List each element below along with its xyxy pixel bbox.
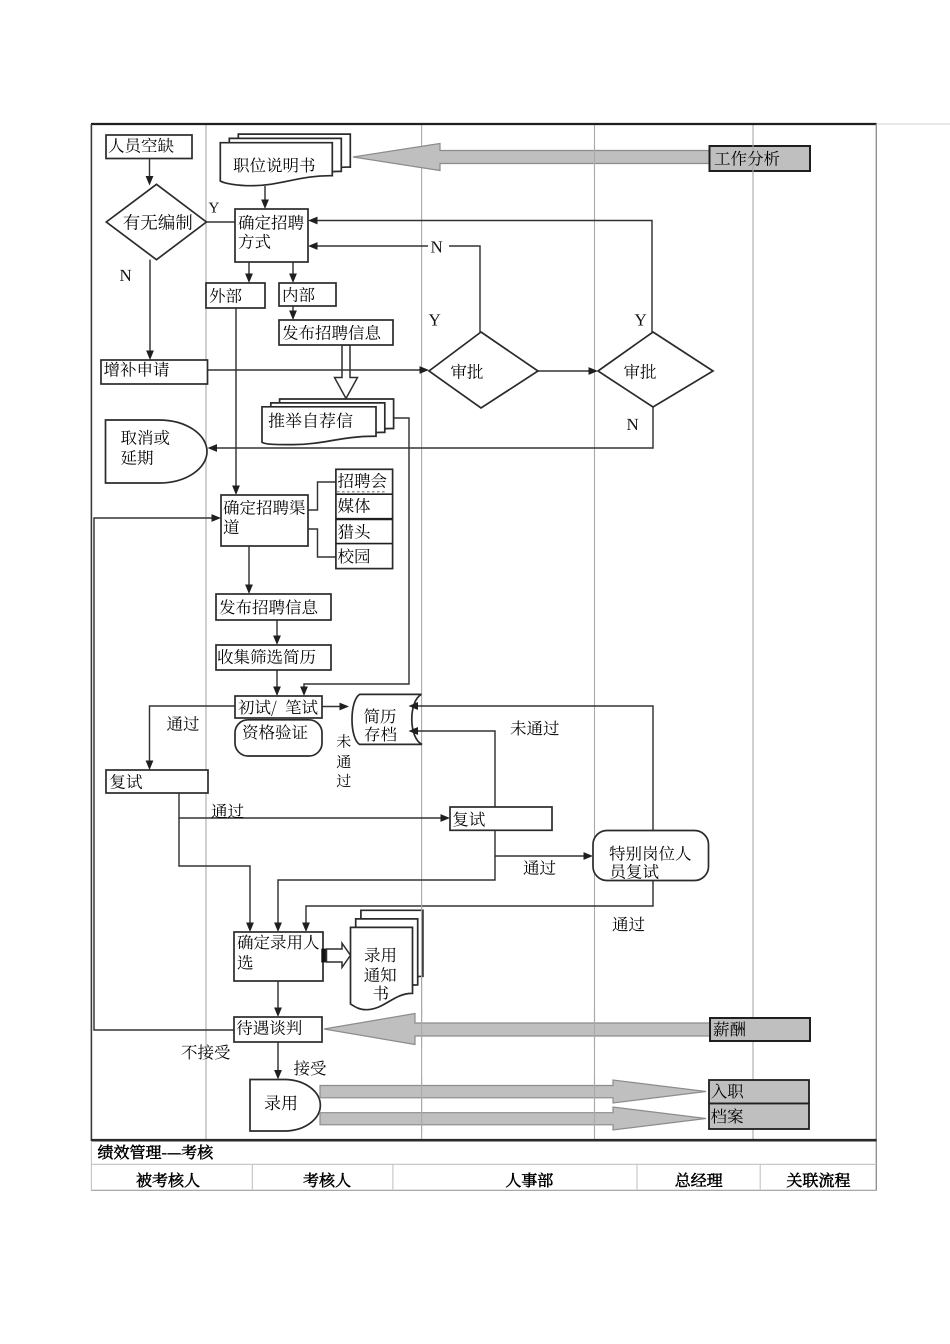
process box 确定招聘方式 [235, 209, 308, 262]
wire 发布招聘信息2 to 收集筛选简历 [276, 620, 278, 637]
label 书 doc3 [374, 986, 389, 1001]
frame top border [91, 123, 877, 125]
label 审批2 [624, 364, 656, 379]
label 录用 shape [265, 1095, 297, 1110]
label 确定招聘渠 [224, 500, 305, 515]
rounded box 特别岗位人员复试 [593, 831, 709, 881]
label 薪酬 [714, 1022, 746, 1037]
label 工作分析 [715, 151, 780, 166]
label N at 有无编制 [120, 270, 131, 281]
wire 复试1 to 确定录用人选 [179, 818, 250, 924]
table column divider 3 [636, 1164, 638, 1190]
label 人员空缺 [109, 138, 174, 153]
related-process box 工作分析 [710, 146, 811, 171]
wire 人员空缺 to 有无编制 [149, 159, 151, 178]
label 发布招聘信息2 [220, 599, 318, 614]
process box 确定录用人选 [234, 932, 323, 981]
wire 审批2 Y back to 确定招聘方式 [318, 221, 653, 333]
label 媒体 [338, 498, 370, 513]
label 未通过 vertical (vertical) [337, 734, 351, 748]
lane divider 3 [594, 124, 596, 1140]
wire 复试1 通过 to 复试2 [179, 793, 441, 818]
process box 复试 1 [106, 770, 208, 793]
wire 确定录用人选 to 待遇谈判 [277, 981, 279, 1009]
wire 复试2 to 确定录用人选 [278, 856, 495, 924]
lane line overlays across 薪酬 arrow [421, 1009, 423, 1047]
label 收集筛选简历 [218, 649, 315, 664]
lane line overlay across 录用通知书 stack [421, 903, 423, 1013]
label 有无编制 [124, 214, 192, 230]
delay shape 录用 [250, 1080, 320, 1132]
document stack 推举自荐信 [262, 399, 394, 445]
gray arrow 录用 to 档案 [320, 1107, 706, 1130]
document stack 职位说明书 [220, 134, 350, 186]
wire 初试笔试 通过 to 复试1 [150, 706, 236, 762]
label N at 审批2 [627, 419, 638, 430]
lane divider 4 [752, 124, 754, 1140]
table left edge below frame [90, 1141, 92, 1190]
label 确定招聘 [239, 215, 304, 230]
label 推举自荐信 [269, 412, 353, 428]
lane line overlays across 入职/档案 arrows [421, 1077, 423, 1133]
table column divider 4 [759, 1164, 761, 1190]
label 取消或 [121, 430, 169, 445]
table column divider 1 [251, 1164, 253, 1190]
gray arrow from 工作分析 [353, 144, 711, 171]
label 存档 [365, 726, 397, 741]
delay shape 取消或延期 [106, 420, 208, 483]
wire 待遇谈判 接受 to 录用 [277, 1042, 279, 1071]
label 复试2 [453, 812, 485, 827]
label 职位说明书 [234, 157, 315, 172]
lane line overlay across 工作分析 arrow [594, 146, 596, 169]
channel list box 招聘会/媒体/猎头/校园 [336, 469, 393, 568]
label 未通过 b [511, 720, 559, 735]
wire 复试2 未通过 to 简历存档 [418, 731, 496, 807]
decision diamond 审批 2 [598, 332, 713, 407]
table column divider 2 [392, 1164, 394, 1190]
wire 审批1 N back to 确定招聘方式 [318, 245, 429, 247]
label 内部 [284, 287, 315, 302]
faint line right of frame top [877, 123, 950, 125]
wire 有无编制 Y to 确定招聘方式 [206, 221, 235, 223]
label Y at 审批1 [429, 314, 441, 325]
decision diamond 有无编制 [106, 184, 206, 259]
label 资格验证 [243, 724, 307, 739]
wire 推举自荐信 to 初试笔试 [304, 418, 409, 688]
wire 特别岗位人员复试 通过 to 确定录用人选 [306, 880, 653, 924]
wire 职位说明书 to 确定招聘方式 [264, 186, 266, 201]
rounded box 资格验证 [235, 720, 322, 756]
related-process box 档案 [709, 1104, 809, 1130]
wire 有无编制 N to 增补申请 [149, 260, 151, 352]
label 方式 [239, 234, 271, 249]
label 确定录用人 [238, 934, 319, 949]
process box 确定招聘渠道 [221, 495, 308, 546]
connector 确定招聘渠道 to 招聘会 [308, 482, 336, 510]
wire 审批1 to 审批2 [538, 370, 589, 372]
stored-data shape 简历存档 [352, 694, 422, 744]
label 猎头 [338, 524, 370, 539]
wire 外部 to 确定招聘渠道 [235, 308, 237, 487]
label 档案 [711, 1108, 743, 1123]
label 总经理 [675, 1173, 722, 1187]
wire 内部 to 发布招聘信息 [292, 306, 294, 312]
document stack 录用通知书 [351, 910, 423, 1009]
label 通过 a [167, 716, 199, 731]
arrowhead overlay into 简历存档 upper [409, 702, 419, 710]
label 复试1 [110, 774, 142, 789]
label 录用 doc1 [365, 947, 396, 962]
label 选 [238, 955, 253, 970]
wire 待遇谈判 不接受 feedback to 确定招聘渠道 [94, 518, 234, 1030]
wire 确定招聘方式 to 外部 [248, 262, 250, 275]
arrowhead overlay into 简历存档 lower [409, 727, 419, 735]
wire 确定招聘渠道 to 发布招聘信息2 [248, 546, 250, 586]
label Y at 有无编制 [209, 203, 219, 213]
connector 确定招聘渠道 to 校园 [308, 529, 336, 557]
label 通过 b [212, 804, 244, 819]
hollow arrow 发布招聘信息 to 推举自荐信 [335, 345, 358, 399]
label 增补申请 [104, 362, 169, 377]
process box 复试 2 [450, 807, 552, 830]
lane divider 2 [421, 124, 423, 1140]
related-process box 薪酬 [710, 1018, 810, 1041]
wire 初试笔试 未通过 to 简历存档 [322, 706, 340, 708]
wire 审批2 N to 取消或延期 [217, 407, 653, 448]
lane divider 1 [205, 124, 207, 1140]
label 审批1 [451, 364, 483, 379]
frame right border [875, 124, 877, 1191]
label 待遇谈判 [237, 1020, 302, 1035]
wire 增补申请 to 审批1 [208, 369, 420, 371]
label 关联流程 [787, 1173, 850, 1188]
process box 收集筛选简历 [216, 645, 331, 670]
label 发布招聘信息 [283, 325, 381, 340]
wire 确定招聘方式 to 内部 [292, 262, 294, 275]
wire 收集筛选简历 to 初试笔试 [276, 670, 278, 688]
label 入职 [711, 1083, 743, 1098]
process box 待遇谈判 [234, 1017, 322, 1042]
frame bottom border (table top) [91, 1139, 877, 1142]
label 人事部 [506, 1173, 553, 1188]
label 被考核人 [136, 1173, 199, 1188]
label 外部 [210, 288, 242, 303]
label 招聘会 [338, 473, 387, 488]
label 通过 c [524, 860, 556, 875]
label 接受 [294, 1060, 326, 1075]
clipped text artifact under 招聘会 [337, 491, 386, 493]
label 通过 d [613, 917, 645, 932]
lane line overlay across 工作分析 box [752, 139, 754, 176]
related-process box 入职 [709, 1080, 809, 1104]
label 简历 [364, 708, 396, 723]
label N on feedback line 审批1 [431, 241, 442, 252]
process box 发布招聘信息 2 [216, 594, 331, 620]
label 校园 [338, 548, 370, 563]
hollow arrow 确定录用人选 to 录用通知书 [327, 943, 351, 967]
label 不接受 [182, 1044, 230, 1059]
label 考核人 [304, 1173, 351, 1188]
frame left border [90, 124, 92, 1141]
table row separator [91, 1163, 876, 1165]
process box 人员空缺 [106, 135, 192, 159]
label Y at 审批2 [635, 314, 647, 325]
label 初试笔试 [238, 699, 317, 716]
process box 外部 [206, 283, 265, 308]
decision diamond 审批 1 [429, 332, 538, 408]
label 绩效管理-—考核 [98, 1145, 213, 1160]
wire 特别岗位人员复试 未通过 to 简历存档 [418, 706, 654, 831]
process box 发布招聘信息 [279, 320, 393, 345]
process box 增补申请 [101, 360, 208, 384]
gray arrow from 薪酬 [324, 1014, 710, 1045]
label 通知 doc2 [364, 967, 396, 982]
process box 内部 [279, 283, 336, 306]
label 延期 [121, 450, 153, 465]
label 道 [224, 519, 239, 534]
table bottom line [91, 1189, 876, 1191]
process box 初试笔试 [235, 696, 322, 718]
wire 复试2 通过 to 特别岗位人员复试 [495, 829, 584, 856]
label 特别岗位人 [610, 846, 691, 861]
label 员复试 [610, 864, 658, 879]
gray arrow 录用 to 入职 [320, 1080, 706, 1103]
